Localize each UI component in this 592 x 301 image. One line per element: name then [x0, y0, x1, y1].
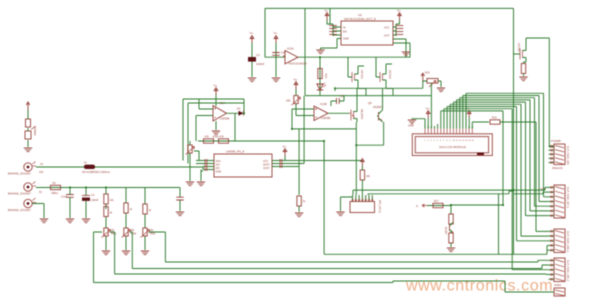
ground Q6	[519, 77, 527, 81]
wire left drop to buffer input	[264, 8, 266, 57]
svg-text:GND: GND	[343, 37, 349, 41]
svg-text:LM358_PS_8: LM358_PS_8	[226, 150, 245, 154]
wire LCD pin12 net	[460, 98, 549, 207]
capacitor C7 at U2 right	[396, 26, 404, 29]
ground C1	[66, 219, 74, 223]
svg-text:TRIM: TRIM	[150, 234, 156, 236]
svg-text:GND1: GND1	[554, 283, 562, 287]
wire LCD pin6 net	[441, 111, 503, 205]
svg-text:S: S	[416, 204, 418, 208]
ground R15	[437, 88, 445, 92]
IC U2 SN74LVC2G66 box	[341, 13, 393, 45]
wire LCD pin10 net	[453, 102, 548, 216]
wire LCD pin1 to gnd	[412, 118, 425, 129]
svg-text:ANALOG: ANALOG	[552, 166, 563, 170]
svg-text:9: 9	[449, 140, 450, 142]
IC U1 LM358_PS_8 box	[214, 150, 272, 178]
wire R13 to gnd	[450, 243, 452, 247]
svg-text:100nF: 100nF	[256, 62, 265, 66]
resistor R1 on rail2	[51, 181, 61, 195]
ground R10	[295, 213, 303, 217]
capacitor C1	[61, 195, 74, 199]
wire LCD pin2 supply	[427, 118, 429, 129]
transistor Q3 IRLZ34N mosfet	[349, 107, 363, 122]
wire Q4 connections	[377, 88, 383, 116]
svg-text:8: 8	[446, 140, 447, 142]
wire P1 connections	[190, 141, 199, 181]
power V+ at U2 left	[325, 9, 329, 21]
wire U1 pinB riser	[288, 96, 304, 164]
svg-text:SUP_HEAD_1X5_2: SUP_HEAD_1X5_2	[566, 260, 569, 282]
pin X6 header-1	[549, 230, 555, 232]
pin LCD-3	[430, 129, 432, 134]
wire bus y268.5	[132, 265, 548, 269]
svg-text:AVR_ISP_6: AVR_ISP_6	[378, 200, 381, 213]
svg-text:IC1B: IC1B	[320, 102, 327, 106]
connector X4 POWER	[549, 139, 570, 165]
power V+ LCD pin2	[426, 107, 430, 119]
svg-text:IC2A: IC2A	[287, 47, 294, 51]
op-amp IC1A LM358	[213, 101, 230, 121]
capacitor C8 at U2 right	[396, 32, 404, 35]
pins U1 left	[205, 159, 208, 162]
wire LCD pin9 net	[450, 104, 548, 236]
wire LCD pin13 net	[463, 96, 549, 202]
wire Q3 source down to Q4	[356, 122, 383, 195]
wire Q3 drain up	[335, 81, 423, 107]
wire output drop column x244	[234, 113, 236, 141]
capacitor C6 at U2 left	[329, 32, 337, 35]
wire U2 left gnd drop	[321, 39, 338, 51]
svg-text:LM358: LM358	[321, 116, 331, 120]
resistor R18	[521, 64, 525, 74]
svg-text:R17: R17	[434, 200, 439, 203]
transistor Q6 2N7000 high side	[517, 43, 526, 62]
pin LCD-10	[452, 129, 454, 134]
wire IC1B output to gate	[328, 112, 349, 114]
connector X6 header	[549, 229, 570, 253]
svg-text:3: 3	[430, 140, 431, 142]
LED D2 red	[317, 83, 326, 90]
capacitor C5 at U2 left	[329, 26, 337, 29]
svg-text:SUP_HEAD_1X5_1: SUP_HEAD_1X5_1	[566, 231, 569, 253]
pin LCD-1	[424, 129, 426, 134]
svg-text:SN74LVC2G66_DCT_8: SN74LVC2G66_DCT_8	[344, 17, 376, 21]
ground C3	[82, 219, 90, 223]
wire U2 right supply column	[393, 20, 400, 36]
svg-text:14: 14	[465, 140, 467, 142]
wire U2 right out to drop x410	[393, 43, 410, 57]
svg-text:BANANA_SOCKET: BANANA_SOCKET	[8, 172, 31, 176]
wire S node right	[451, 205, 503, 214]
wire LCD pin stubs green	[425, 126, 472, 129]
display LCD1 16x2 module	[412, 134, 492, 156]
pin X4 POWER-3	[549, 153, 555, 155]
capacitor C2 100nF	[248, 53, 265, 66]
pin SV1-1	[352, 195, 354, 202]
wire feeds to X5 from buses	[514, 187, 549, 193]
wire T2 connections	[376, 57, 393, 95]
svg-text:47k: 47k	[220, 135, 225, 139]
svg-text:RED: RED	[324, 73, 327, 78]
pin X4 POWER-4	[549, 157, 555, 159]
wire bus y190	[353, 190, 514, 195]
pin SV1-4	[361, 195, 363, 202]
wire R11 to ISP pin	[361, 166, 363, 195]
wire divider line y141	[198, 141, 324, 254]
svg-text:1OUT: 1OUT	[263, 167, 270, 170]
wire bus y282.5	[94, 281, 549, 292]
junction dots	[319, 56, 321, 58]
pin X6 header-2	[549, 235, 555, 237]
svg-text:7: 7	[443, 140, 444, 142]
resistor R11 above ISP	[360, 170, 370, 180]
svg-text:C3: C3	[91, 193, 95, 197]
svg-text:EN: EN	[343, 30, 347, 34]
wire IC1A supply stub	[215, 95, 217, 106]
wire bus y193.8	[368, 191, 514, 195]
svg-text:2N2907: 2N2907	[373, 105, 383, 109]
wire LCD pin7 net	[444, 109, 549, 270]
wire P4 wiper to bus	[149, 232, 166, 262]
fuse F1	[82, 161, 110, 174]
ground U2 left	[316, 50, 324, 54]
ground U2 right	[402, 52, 410, 56]
svg-text:2N7000: 2N7000	[388, 70, 391, 79]
wire U1 right pin stubs	[272, 156, 288, 167]
pin X5 header-7	[549, 215, 555, 217]
capacitor C4	[272, 51, 285, 56]
capacitor C10 end of rail2	[179, 188, 181, 212]
pin X5 header-6	[549, 210, 555, 212]
svg-text:C4: C4	[281, 51, 285, 55]
svg-text:R1: R1	[53, 181, 57, 185]
svg-text:47k: 47k	[205, 135, 210, 139]
wire IC1A feedback loop	[183, 99, 244, 113]
wire R15 connections	[423, 81, 441, 129]
ground P1	[186, 182, 194, 186]
svg-text:V+: V+	[274, 31, 278, 35]
svg-text:GP-KOMP050-2 500mA: GP-KOMP050-2 500mA	[82, 170, 110, 174]
pin SV1-5	[365, 195, 367, 202]
wire R16 to right column	[500, 122, 549, 231]
svg-text:VIN: VIN	[39, 171, 43, 174]
capacitor C9 above IC1B	[331, 94, 344, 106]
pin X5 header-2	[549, 191, 555, 193]
wire U1 pinC riser and sense drop	[288, 129, 299, 195]
svg-text:V+: V+	[283, 145, 287, 149]
connector X2 banana socket	[8, 182, 36, 196]
wire U1 pinA long net to R11	[288, 160, 362, 162]
svg-text:13: 13	[462, 140, 464, 142]
divider chain R7 with trimmer P4	[144, 188, 146, 251]
svg-text:V+: V+	[397, 9, 401, 13]
power V+ at U1 right	[283, 145, 287, 157]
diode D1 in feedback	[237, 107, 244, 116]
svg-text:IN: IN	[343, 26, 346, 30]
wire trimmer wiper to IC1B	[292, 104, 356, 129]
svg-text:GND: GND	[408, 124, 414, 128]
wire S1 column	[27, 110, 29, 147]
wire C3 column	[85, 188, 87, 219]
svg-text:680m: 680m	[52, 191, 59, 195]
pin LCD-9	[449, 129, 451, 134]
pin X6 header-3	[549, 240, 555, 242]
contrast trimmer R15	[421, 72, 438, 88]
wire bus y274	[115, 273, 549, 275]
wire mid horizontal bus y95	[305, 95, 431, 97]
wire vertical mid x305	[304, 8, 306, 95]
transistor T2 2N7000 analog switch b	[378, 70, 391, 84]
pin SV1-6	[368, 195, 370, 202]
pin LCD-14	[465, 129, 467, 134]
svg-text:6: 6	[440, 140, 441, 142]
node label S arrow	[416, 204, 451, 208]
wire LCD pin16 backlight	[472, 122, 489, 129]
pin LCD-11	[456, 129, 458, 134]
wire C2 column	[251, 43, 253, 77]
svg-text:D1: D1	[237, 107, 241, 111]
trimmer P1	[186, 145, 195, 155]
svg-text:10: 10	[453, 140, 455, 142]
svg-text:16x2 LCD MODULE: 16x2 LCD MODULE	[439, 145, 466, 149]
svg-text:12: 12	[459, 140, 461, 142]
buffer IC2A 74LVC1G34GW	[283, 47, 307, 66]
svg-text:IRLZ34N: IRLZ34N	[360, 109, 363, 119]
pin X7 header-2	[549, 264, 555, 266]
svg-text:C9: C9	[340, 94, 344, 98]
svg-text:2.2uF: 2.2uF	[61, 195, 68, 199]
svg-text:1: 1	[424, 140, 425, 142]
capacitor C3 tantalum	[82, 193, 99, 202]
svg-text:OUT: OUT	[384, 34, 390, 38]
wire Q6 chain	[524, 62, 527, 76]
svg-text:TRIM: TRIM	[111, 234, 117, 236]
wire LCD pin14 net	[466, 93, 549, 197]
wire C1 column	[69, 188, 71, 219]
wire Q6 gate stub	[514, 53, 521, 55]
ground S circuit	[447, 248, 455, 252]
pin SV1-7	[371, 195, 373, 202]
resistor R13	[449, 233, 453, 243]
svg-text:V+: V+	[214, 84, 218, 88]
wire LED chain column x320	[319, 57, 321, 95]
ground below C2	[248, 78, 256, 82]
pin X5 header-1	[549, 186, 555, 188]
svg-text:BANANA_SOCKET: BANANA_SOCKET	[8, 192, 31, 196]
svg-text:2N7000: 2N7000	[517, 43, 520, 52]
svg-text:GND: GND	[216, 171, 222, 174]
svg-text:100nF: 100nF	[91, 198, 99, 202]
svg-text:SUP_HEAD_1X5: SUP_HEAD_1X5	[566, 146, 569, 165]
svg-text:X1: X1	[40, 162, 44, 166]
pin X4 POWER-2	[549, 149, 555, 151]
wire IC1A inputs	[196, 109, 213, 141]
pin LCD-5	[437, 129, 439, 134]
pin LCD-7	[443, 129, 445, 134]
connector X3 banana socket GND	[8, 198, 36, 212]
wire rail2	[36, 187, 180, 189]
transistor Q4 2N2907	[368, 101, 383, 122]
svg-text:Q4: Q4	[368, 101, 372, 105]
wire IC1A minus to gnd	[215, 121, 217, 130]
svg-text:V+: V+	[426, 107, 430, 111]
pin LCD-12	[459, 129, 461, 134]
svg-text:5: 5	[437, 140, 438, 142]
svg-text:2: 2	[427, 140, 428, 142]
wire R10 to gnd	[298, 206, 300, 212]
wire LCD pin15 supply	[468, 118, 470, 129]
connector X7 header	[549, 258, 570, 282]
ground U1 left	[197, 182, 205, 186]
transistor T1 2N7000 analog switch a	[350, 70, 363, 84]
wire top right box	[526, 38, 554, 147]
pin LCD-2	[427, 129, 429, 134]
pin LCD-4	[434, 129, 436, 134]
pin SV1-3	[358, 195, 360, 202]
power V+ above trimmer R8	[294, 78, 298, 90]
pin X6 header-5	[549, 249, 555, 251]
connector S1 power jack top-left	[25, 102, 36, 139]
wire U2 right out to drop x406	[393, 39, 406, 57]
pin X7 header-5	[549, 278, 555, 280]
wire rail1 into U1	[36, 167, 203, 170]
svg-text:11: 11	[456, 140, 458, 142]
pin X6 header-4	[549, 244, 555, 246]
wire U2 left supply column	[327, 20, 341, 39]
wire long right vertical x513.5	[513, 8, 515, 254]
transistor Q5	[444, 223, 453, 236]
wire buffer input segment	[265, 56, 285, 58]
wire U2 top feed from rail	[329, 8, 331, 24]
node arrow above R11	[361, 159, 365, 166]
connector X8 stub	[549, 288, 566, 296]
resistor R5 47k	[219, 135, 229, 144]
ground IC1A	[212, 131, 220, 139]
power V+ at U2 right	[397, 9, 401, 21]
pin LCD-16	[471, 129, 473, 134]
wire P2 wiper to bus	[94, 232, 115, 283]
wire U1 left pin stubs	[196, 161, 214, 170]
wire IC1A output	[227, 112, 245, 114]
svg-text:4: 4	[434, 140, 435, 142]
divider chain R2/R6 with trimmer P2	[105, 188, 107, 251]
divider chain R3 with trimmer P3	[125, 188, 127, 251]
resistor R14	[318, 69, 327, 79]
op-amp IC1B LM358	[314, 102, 331, 121]
wire P3 wiper to bus	[130, 232, 133, 269]
svg-text:15: 15	[468, 140, 470, 142]
pin X4 POWER-1	[549, 145, 555, 147]
ground X3	[40, 219, 48, 223]
connector SV1 ISP header	[350, 195, 381, 213]
wire V+ to trimmer	[295, 89, 297, 96]
pin X7 header-3	[549, 269, 555, 271]
svg-text:22k: 22k	[286, 99, 291, 103]
svg-text:V+: V+	[325, 9, 329, 13]
svg-text:POWER: POWER	[33, 126, 36, 136]
wire LCD pin11 net	[457, 100, 549, 211]
svg-text:SUP_HEAD_1X7_1: SUP_HEAD_1X7_1	[566, 187, 569, 209]
svg-text:V+: V+	[250, 31, 254, 35]
pin LCD-13	[462, 129, 464, 134]
svg-text:16: 16	[471, 140, 473, 142]
wire Q5 chain	[451, 224, 453, 233]
pin SV1-2	[355, 195, 357, 202]
svg-text:V+: V+	[294, 78, 298, 82]
wire bus y262	[165, 260, 548, 262]
power V+ symbol at C2	[250, 31, 254, 43]
power V+ LCD pin15	[467, 107, 471, 119]
pins U1 right	[280, 159, 283, 162]
ground ISP	[336, 212, 344, 216]
svg-text:POWER: POWER	[551, 139, 561, 143]
svg-text:LM358: LM358	[220, 117, 230, 121]
wire bottom bus y254	[324, 246, 549, 255]
svg-text:5V: 5V	[39, 191, 42, 194]
svg-text:R15: R15	[425, 72, 430, 75]
wire U1 gnd pin drop	[201, 170, 203, 182]
pin LCD-15	[468, 129, 470, 134]
wire feed x498	[498, 194, 500, 255]
svg-text:TRIM: TRIM	[131, 234, 137, 236]
svg-text:C2: C2	[256, 53, 260, 57]
ground below C4	[272, 78, 280, 82]
wire feedback columns to U1	[183, 99, 188, 164]
ground LCD pin1	[408, 120, 416, 128]
resistor R4 47k	[204, 135, 214, 144]
pin LCD-6	[440, 129, 442, 134]
connector X1 banana socket VIN	[8, 162, 44, 176]
svg-text:R16: R16	[492, 117, 497, 120]
wire X3 to gnd	[32, 204, 44, 219]
svg-text:VCC: VCC	[384, 26, 390, 30]
pin X4 POWER-5	[549, 162, 555, 164]
wire T1 connections	[348, 57, 366, 95]
ground S1	[24, 148, 32, 152]
svg-text:2N7000: 2N7000	[360, 70, 363, 79]
wire top rail net N$1	[265, 7, 514, 9]
power V+ at IC1A	[214, 84, 218, 96]
wire C4 column	[275, 43, 277, 77]
pin X5 header-4	[549, 201, 555, 203]
wire pin5 stub	[437, 124, 439, 126]
resistor R12	[449, 214, 453, 224]
pin X7 header-1	[549, 259, 555, 261]
resistor R17 on S wire	[433, 200, 443, 208]
resistor R16 backlight	[490, 117, 500, 125]
connector X5 header	[549, 185, 570, 218]
pin X7 header-4	[549, 274, 555, 276]
pin X5 header-3	[549, 196, 555, 198]
trimmer R8 22k	[286, 96, 301, 106]
wire LCD pin8 net	[447, 107, 548, 241]
pin X5 header-5	[549, 205, 555, 207]
wire ISP gnd branch	[341, 197, 353, 211]
svg-text:GND: GND	[213, 135, 219, 139]
power V+ symbol at C4	[274, 31, 278, 43]
resistor R10	[297, 196, 306, 206]
svg-text:BANANA_SOCKET: BANANA_SOCKET	[8, 208, 31, 212]
pin LCD-8	[446, 129, 448, 134]
svg-text:BC847: BC847	[444, 227, 447, 235]
wire buffer output to U2 switch line	[298, 56, 410, 58]
svg-text:74LVC1G34GW: 74LVC1G34GW	[288, 62, 307, 66]
